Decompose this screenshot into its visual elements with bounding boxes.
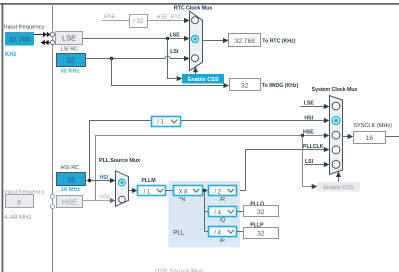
PLLQ dropdown /4 bbox=[209, 207, 237, 217]
svg-text:To RTC (KHz): To RTC (KHz) bbox=[262, 38, 295, 44]
*N label bbox=[179, 197, 185, 203]
/P label bbox=[220, 239, 225, 245]
PLL Source Mux title bbox=[99, 158, 141, 164]
svg-text:/P: /P bbox=[220, 239, 225, 245]
To RTC (KHz) label bbox=[262, 38, 295, 44]
wire /P to PLLP box bbox=[237, 231, 244, 233]
HSI divider dropdown /1 bbox=[152, 117, 181, 127]
RTC mux radio LSI bbox=[192, 55, 199, 62]
PLLCLK label at system mux bbox=[303, 144, 324, 150]
wire /Q to PLLQ box bbox=[237, 211, 244, 213]
svg-text:HSE: HSE bbox=[100, 195, 111, 201]
PLL mux radio HSE bbox=[119, 196, 126, 203]
svg-text:4–48 MHz: 4–48 MHz bbox=[4, 215, 31, 221]
HSI RC label bbox=[61, 165, 79, 171]
wire HSE to /32 bbox=[102, 20, 129, 22]
svg-text:16: 16 bbox=[366, 135, 374, 142]
svg-text:32 KHz: 32 KHz bbox=[61, 68, 80, 74]
svg-text:32.768: 32.768 bbox=[235, 38, 256, 45]
svg-text:LSE: LSE bbox=[62, 34, 76, 43]
PLL region background bbox=[168, 181, 240, 247]
node PLL post-N junction bbox=[203, 189, 206, 192]
svg-text:HSE: HSE bbox=[303, 130, 314, 136]
wire HSE to PLL mux bbox=[83, 198, 116, 203]
svg-text:*N: *N bbox=[179, 197, 185, 203]
svg-text:To IWDG (KHz): To IWDG (KHz) bbox=[262, 83, 299, 89]
svg-text:32.768: 32.768 bbox=[9, 37, 30, 44]
svg-text:32: 32 bbox=[67, 56, 75, 65]
wire HSI to PLL mux bbox=[86, 178, 116, 183]
IWDG freq box 32 bbox=[230, 79, 261, 91]
svg-text:32: 32 bbox=[257, 209, 265, 216]
svg-text:LSE: LSE bbox=[304, 101, 315, 107]
svg-text:/Q: /Q bbox=[220, 218, 226, 224]
chip boundary vertical line bbox=[52, 5, 54, 272]
PLL mux body bbox=[116, 171, 129, 207]
wire LSE to Enable CSS (RTC) bbox=[168, 39, 183, 82]
svg-text:System Clock Mux: System Clock Mux bbox=[312, 87, 359, 93]
svg-text:8: 8 bbox=[17, 199, 21, 206]
svg-text:HSI RC: HSI RC bbox=[61, 165, 79, 171]
LSE block bbox=[56, 32, 83, 45]
svg-text:LSI: LSI bbox=[170, 49, 179, 55]
wire Enable CSS up-arrow into system mux bbox=[336, 171, 341, 182]
svg-text:X 8: X 8 bbox=[178, 189, 188, 195]
pin circle OSC_OUT bbox=[50, 204, 54, 208]
svg-text:/ 32: / 32 bbox=[133, 19, 144, 25]
wire RTC mux output bbox=[203, 38, 229, 43]
PLLQ label bbox=[250, 201, 264, 207]
svg-text:Enable CSS: Enable CSS bbox=[188, 77, 219, 83]
/Q label bbox=[220, 218, 226, 224]
LSI RC block 32 bbox=[57, 54, 86, 67]
svg-text:PLL Source Mux: PLL Source Mux bbox=[99, 158, 141, 164]
svg-text:Enable CSS: Enable CSS bbox=[324, 185, 354, 191]
LSI label at system mux bbox=[305, 159, 314, 165]
svg-text:HSE_RTC: HSE_RTC bbox=[157, 14, 182, 20]
svg-text:16 MHz: 16 MHz bbox=[61, 187, 81, 193]
frame left border bbox=[2, 3, 4, 272]
svg-text:/ 1: / 1 bbox=[144, 189, 151, 195]
PLLQ box 32 bbox=[244, 206, 279, 217]
RTC freq box 32.768 bbox=[229, 34, 261, 47]
wire LSI to IWDG bbox=[112, 59, 230, 89]
divider /32 box bbox=[130, 15, 148, 28]
wire HSI to system mux bbox=[90, 118, 330, 181]
LSI label at RTC mux bbox=[170, 49, 179, 55]
svg-text:SYSCLK (MHz): SYSCLK (MHz) bbox=[353, 123, 392, 129]
HSI RC block 16 bbox=[57, 173, 86, 186]
RTC Clock Mux title bbox=[174, 5, 213, 11]
svg-text:Input frequency: Input frequency bbox=[4, 25, 45, 31]
HSE label at system mux bbox=[303, 130, 314, 136]
SYSCLK (MHz) label bbox=[353, 123, 392, 129]
wire PLLCLK to system mux bbox=[237, 147, 330, 191]
wire LSI to RTC mux with bump over LSE vertical bbox=[85, 56, 190, 61]
system mux radio LSE bbox=[332, 102, 340, 110]
HSE block bbox=[57, 196, 83, 208]
svg-text:PLLM: PLLM bbox=[141, 178, 155, 184]
pin circle OSC32_OUT bbox=[50, 40, 54, 44]
System mux body bbox=[330, 96, 343, 175]
wire SYSCLK to right edge bbox=[386, 136, 399, 138]
wire HSE junction to Enable CSS (system) bbox=[303, 136, 318, 190]
SYSCLK box 16 bbox=[354, 132, 386, 144]
HSE label (top) bbox=[104, 14, 115, 20]
PLLN dropdown X8 bbox=[174, 186, 203, 196]
svg-text:KHz: KHz bbox=[5, 52, 17, 58]
PLL label bbox=[173, 229, 185, 236]
svg-text:LSE: LSE bbox=[170, 32, 181, 38]
svg-text:16: 16 bbox=[67, 175, 75, 184]
RTC mux radio LSE selected bbox=[192, 36, 199, 43]
wire PLL mux output to PLLM bbox=[128, 188, 137, 193]
wire LSE out with double arrow bbox=[41, 40, 51, 45]
HSE_RTC label bbox=[157, 14, 182, 20]
PLLP label bbox=[250, 222, 264, 228]
input frequency label (top) bbox=[4, 25, 45, 31]
KHz label bbox=[5, 52, 17, 58]
PLLP dropdown /4 bbox=[209, 227, 237, 237]
LSI RC label bbox=[61, 47, 78, 53]
USB Source Mux title (clipped at bottom) bbox=[155, 269, 204, 272]
svg-text:LSI RC: LSI RC bbox=[61, 47, 78, 53]
pin circle OSC32_IN bbox=[50, 32, 54, 36]
wire xN to /R bbox=[202, 190, 208, 192]
input frequency label (bottom) bbox=[4, 190, 45, 196]
Enable CSS button (RTC) bbox=[182, 74, 224, 84]
PLLR dropdown /2 bbox=[209, 186, 237, 196]
PLLM dropdown /1 bbox=[138, 186, 166, 196]
PLLP box 32 bbox=[244, 228, 279, 239]
Enable CSS button (system, disabled) bbox=[317, 182, 360, 192]
System Clock Mux title bbox=[312, 87, 359, 93]
system mux radio HSI selected bbox=[332, 117, 340, 125]
HSI label at system mux bbox=[304, 115, 313, 121]
svg-text:32: 32 bbox=[241, 82, 249, 89]
system mux radio LSI bbox=[332, 161, 340, 169]
LSE input frequency box 32.768 bbox=[5, 32, 34, 46]
system mux radio PLLCLK bbox=[332, 146, 340, 154]
HSI label at PLL mux bbox=[100, 175, 109, 181]
wire LSE stub to system mux bbox=[301, 104, 330, 109]
RTC mux radio HSE_RTC bbox=[192, 17, 199, 24]
svg-text:PLL: PLL bbox=[173, 229, 185, 236]
16 MHz label bbox=[61, 187, 81, 193]
wire PLLM to xN bbox=[166, 190, 173, 192]
svg-text:/ 2: / 2 bbox=[214, 189, 221, 195]
svg-text:HSE: HSE bbox=[104, 14, 115, 20]
system mux radio HSE bbox=[332, 131, 340, 139]
node LSE junction bbox=[166, 37, 169, 40]
svg-text:RTC Clock Mux: RTC Clock Mux bbox=[174, 5, 213, 11]
wire LSE to RTC mux bbox=[83, 36, 190, 41]
wire Enable CSS up-arrow into RTC mux bbox=[193, 67, 198, 75]
node HSE junction at system mux bbox=[301, 134, 304, 137]
HSE label at PLL mux bbox=[100, 195, 111, 201]
node LSI junction bbox=[110, 57, 113, 60]
wire LSI stub to system mux bbox=[305, 162, 330, 167]
svg-text:/ 4: / 4 bbox=[214, 230, 221, 236]
wire HSE_RTC to RTC mux bbox=[148, 18, 190, 23]
wire vertical to Q and P dividers bbox=[205, 191, 209, 232]
HSE input frequency box 8 bbox=[6, 195, 34, 208]
32 KHz label bbox=[61, 68, 80, 74]
LSE label at RTC mux bbox=[170, 32, 181, 38]
/R label bbox=[220, 197, 225, 203]
svg-text:/ 4: / 4 bbox=[214, 210, 221, 216]
wire HSE to system mux bbox=[96, 133, 330, 201]
4-48 MHz label bbox=[4, 215, 31, 221]
frame top border bbox=[0, 3, 399, 5]
node HSI junction bbox=[88, 179, 91, 182]
svg-text:32: 32 bbox=[257, 231, 265, 238]
pin circle OSC_IN bbox=[50, 194, 54, 198]
PLL mux radio HSI selected bbox=[119, 179, 126, 186]
To IWDG (KHz) label bbox=[262, 83, 299, 89]
wire LSE in with double arrow bbox=[34, 32, 51, 37]
wire SYSCLK output bbox=[342, 134, 353, 139]
RTC mux body bbox=[190, 11, 203, 71]
svg-text:/ 1: / 1 bbox=[157, 120, 164, 126]
LSE label at system mux bbox=[304, 101, 315, 107]
svg-text:HSE: HSE bbox=[62, 197, 77, 206]
svg-text:/R: /R bbox=[220, 197, 225, 203]
svg-text:HSI: HSI bbox=[100, 175, 109, 181]
PLLM label bbox=[141, 178, 155, 184]
